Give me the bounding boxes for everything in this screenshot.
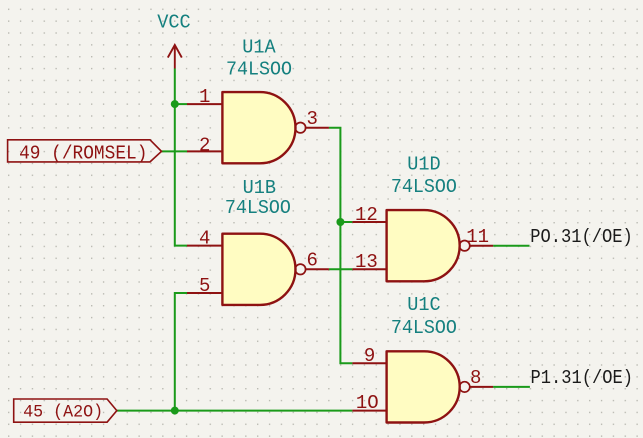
svg-text:8: 8 (470, 367, 481, 389)
wire /ROMSEL label to U1A pin 2 (162, 150, 188, 152)
svg-text:3: 3 (307, 108, 318, 130)
pin 11 of U1D with inversion bubble (459, 241, 469, 251)
pin 8 of U1C with inversion bubble (459, 382, 469, 392)
svg-text:12: 12 (355, 204, 378, 226)
wire U1B output to U1D pin 13 (329, 268, 353, 270)
wire VCC stem to pin1 junction and down to U1B pin 4 (175, 69, 187, 246)
power symbol VCC (168, 45, 182, 69)
pin 1 of U1A (187, 103, 222, 105)
svg-text:2: 2 (199, 134, 210, 156)
wire A20 label to U1C pin 10 (117, 410, 353, 412)
wire U1A output down to U1C pin 9 (329, 128, 353, 364)
pin 2 of U1A (187, 150, 222, 152)
svg-text:U1B: U1B (243, 177, 277, 199)
pin 3 of U1A with inversion bubble (295, 123, 305, 133)
svg-text:74LSOO: 74LSOO (225, 197, 291, 219)
pin 4 of U1B (187, 245, 222, 247)
svg-text:PO.31(/OE): PO.31(/OE) (530, 226, 633, 248)
pin 12 of U1D (352, 221, 386, 223)
wire junction branch to U1A pin 1 (175, 103, 187, 105)
svg-text:11: 11 (466, 226, 489, 248)
svg-text:P1.31(/OE): P1.31(/OE) (531, 367, 634, 389)
wire branch to U1D pin 12 (340, 221, 352, 223)
svg-text:1O: 1O (356, 392, 379, 414)
nand gate U1D body (352, 204, 493, 281)
svg-text:1: 1 (199, 86, 210, 108)
junction at VCC / pin 1 (171, 100, 179, 108)
nand gate U1C body (352, 345, 493, 422)
svg-text:VCC: VCC (157, 12, 191, 34)
svg-text:9: 9 (364, 345, 375, 367)
svg-text:74LSOO: 74LSOO (391, 317, 457, 339)
pin 5 of U1B (187, 292, 222, 294)
wire U1B pin 5 down to A20 net (175, 293, 187, 411)
svg-text:45 (A2O): 45 (A2O) (23, 403, 103, 423)
hierarchical label 45 (A20) (14, 399, 117, 423)
svg-text:5: 5 (199, 275, 210, 297)
svg-text:74LSOO: 74LSOO (226, 58, 292, 80)
wire U1D output to P0.31(/OE) (493, 245, 529, 247)
svg-text:4: 4 (199, 228, 210, 250)
nand gate U1A body (187, 86, 329, 163)
svg-text:U1D: U1D (407, 153, 440, 175)
svg-text:6: 6 (307, 249, 318, 271)
junction at A20 net (171, 407, 179, 415)
pin 6 of U1B with inversion bubble (295, 264, 305, 274)
pin 13 of U1D (352, 268, 386, 270)
svg-text:13: 13 (355, 251, 378, 273)
pin 10 of U1C (352, 410, 386, 412)
nand gate U1B body (187, 228, 329, 305)
svg-text:U1C: U1C (407, 294, 440, 316)
svg-text:74LSOO: 74LSOO (391, 176, 457, 198)
svg-text:49 (/ROMSEL): 49 (/ROMSEL) (19, 143, 147, 165)
pin 9 of U1C (352, 362, 386, 364)
svg-text:U1A: U1A (242, 36, 276, 58)
junction at U1D pin 12 branch (336, 218, 344, 226)
hierarchical label 49 (/ROMSEL) (8, 140, 162, 165)
wire U1C output to P1.31(/OE) (493, 386, 530, 388)
